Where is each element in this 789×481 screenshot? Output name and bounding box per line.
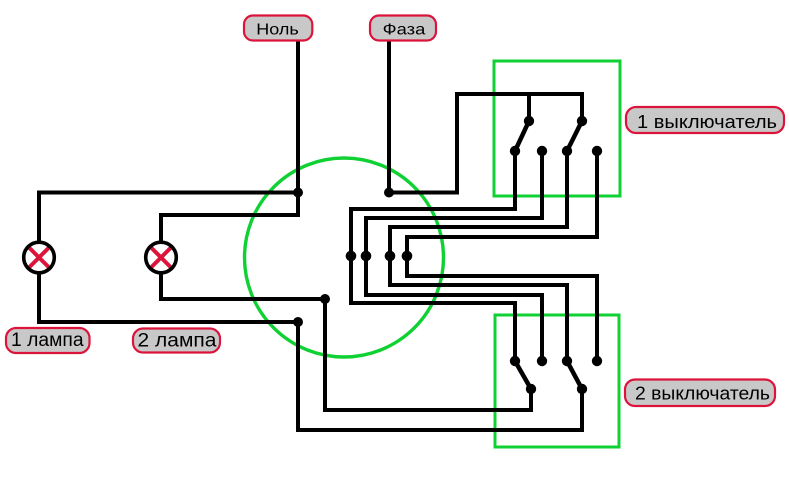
switch SA1 pole 1 pin bbox=[524, 116, 534, 126]
switch SA2 blade b bbox=[567, 361, 582, 389]
switch SA1 blade b bbox=[567, 121, 582, 151]
wire: node P to switch1 feed rail bbox=[389, 94, 582, 193]
switch SA2 contact 2 pin bbox=[537, 356, 547, 366]
node T2 bbox=[361, 251, 372, 262]
switch SA1 contact 1 pin bbox=[510, 146, 520, 156]
wire: switch1 contact1 loop through node T1 to switch2 pole1 bbox=[351, 151, 515, 361]
label "1 выключатель" bbox=[626, 107, 784, 133]
wire: lamp1 top to node N bbox=[39, 193, 298, 242]
wire: switch2 blade1 return to lamp2 bottom bbox=[161, 273, 531, 410]
wire: switch1 contact3 loop through node T3 to switch2 pole3 bbox=[390, 151, 567, 361]
node N (neutral junction) bbox=[293, 188, 303, 198]
node lamp2 return bbox=[320, 294, 330, 304]
node P (phase junction) bbox=[384, 188, 394, 198]
label "1 лампа" bbox=[6, 328, 90, 353]
svg-text:Фаза: Фаза bbox=[383, 22, 426, 39]
junction box (green circle) bbox=[245, 158, 444, 357]
node lamp1 return bbox=[293, 317, 303, 327]
wire: lamp2 top to node N bbox=[161, 193, 298, 242]
node T1 bbox=[346, 251, 357, 262]
switch SA2 contact 3 pin bbox=[562, 356, 572, 366]
switch SA1 contact 2 pin bbox=[537, 146, 547, 156]
node T3 bbox=[385, 251, 396, 262]
switch SA2 blade 2 pin bbox=[577, 384, 587, 394]
lamp HL1 bbox=[22, 241, 56, 275]
label "2 лампа" bbox=[133, 329, 220, 353]
node T4 bbox=[402, 251, 413, 262]
svg-text:1 лампа: 1 лампа bbox=[11, 330, 84, 351]
switch SA2 blade 1 pin bbox=[526, 384, 536, 394]
switch SA2 contact 4 pin bbox=[592, 356, 602, 366]
switch SA2 blade a bbox=[515, 361, 531, 389]
label "Ноль" bbox=[244, 16, 312, 41]
wire: feed branch to switch1 pole 1 bbox=[527, 94, 531, 121]
switch SA1 blade a bbox=[515, 121, 529, 151]
switch SA2 contact 1 pin bbox=[510, 356, 520, 366]
label "Фаза" bbox=[370, 16, 436, 41]
switch SA1 contact 3 pin bbox=[562, 146, 572, 156]
label "2 выключатель" bbox=[625, 380, 775, 407]
switch SA1 contact 4 pin bbox=[592, 146, 602, 156]
wire: phase drop from label to node P bbox=[387, 41, 391, 193]
switch box 1 (green rectangle) bbox=[494, 61, 620, 196]
wire: neutral drop from label to node N bbox=[296, 41, 300, 193]
svg-text:1 выключатель: 1 выключатель bbox=[637, 112, 777, 132]
switch SA1 pole 2 pin bbox=[577, 116, 587, 126]
wire: switch1 contact2 loop through node T2 to switch2 pole2 bbox=[366, 151, 542, 361]
svg-text:Ноль: Ноль bbox=[256, 22, 299, 39]
wire: switch2 blade2 return to lamp1 bottom bbox=[39, 273, 582, 430]
lamp HL2 bbox=[144, 241, 178, 275]
svg-text:2 выключатель: 2 выключатель bbox=[635, 384, 770, 404]
switch box 2 (green rectangle) bbox=[495, 315, 619, 447]
svg-text:2 лампа: 2 лампа bbox=[138, 331, 217, 352]
wire: switch1 contact4 loop through node T4 to switch2 pole4 bbox=[407, 151, 597, 361]
